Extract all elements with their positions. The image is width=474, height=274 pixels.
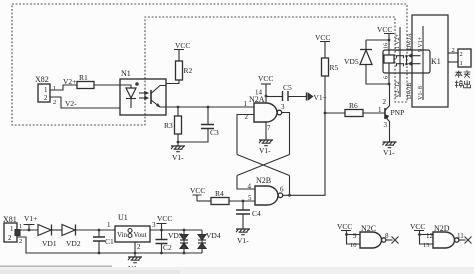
svg-text:C2: C2 xyxy=(163,243,172,252)
svg-text:R5: R5 xyxy=(330,63,339,72)
VCC (at U1 output) xyxy=(157,214,173,230)
svg-text:R6: R6 xyxy=(349,101,358,110)
diode VD5 xyxy=(344,39,390,86)
ground V1- (below R3) xyxy=(171,141,185,162)
svg-text:2: 2 xyxy=(383,98,387,106)
ground V1- (N2A pin7) xyxy=(259,122,273,155)
svg-text:1: 1 xyxy=(107,221,111,229)
svg-text:16: 16 xyxy=(384,43,390,49)
svg-text:1: 1 xyxy=(10,225,14,233)
capacitor C1 xyxy=(93,229,114,255)
svg-text:8: 8 xyxy=(385,232,389,240)
relay outline box xyxy=(412,15,448,107)
svg-text:PNP: PNP xyxy=(391,108,405,117)
power port V1+ (arrow) xyxy=(307,93,327,103)
svg-text:C1: C1 xyxy=(105,237,114,246)
svg-text:1: 1 xyxy=(244,100,248,108)
wire U1 pin2 to ground xyxy=(134,242,137,257)
wire U1 pin3 rail xyxy=(150,229,202,231)
VCC (above relay coil) xyxy=(377,25,394,40)
relay K1 coil xyxy=(384,40,395,84)
svg-text:9 V1+: 9 V1+ xyxy=(418,36,424,52)
svg-text:V1+: V1+ xyxy=(24,214,37,223)
optocoupler N1 xyxy=(120,69,166,115)
regulator U1 xyxy=(107,213,156,251)
svg-text:V2- 12: V2- 12 xyxy=(395,81,401,98)
svg-text:N2B: N2B xyxy=(256,176,271,185)
relay pin 12 net V2- xyxy=(395,81,401,98)
zener pair VD3 xyxy=(168,229,188,255)
svg-text:7: 7 xyxy=(267,124,271,132)
svg-text:VD1: VD1 xyxy=(42,239,57,248)
relay K1 contact box xyxy=(383,50,441,73)
svg-text:VD4: VD4 xyxy=(206,231,221,240)
svg-text:R2: R2 xyxy=(184,66,193,75)
VCC (above R5) xyxy=(315,33,330,58)
resistor R4 xyxy=(197,189,255,205)
svg-text:10: 10 xyxy=(350,242,357,249)
svg-text:1: 1 xyxy=(460,60,463,67)
svg-text:V1-: V1- xyxy=(172,153,184,162)
nand gate N2B xyxy=(248,176,285,205)
svg-text:11 V2+: 11 V2+ xyxy=(395,33,401,52)
svg-text:Vout: Vout xyxy=(134,231,147,239)
svg-text:1: 1 xyxy=(378,106,382,114)
svg-text:V1-: V1- xyxy=(259,146,271,155)
wire N2B output feedback xyxy=(289,176,291,196)
svg-text:12: 12 xyxy=(426,232,434,240)
relay contact a xyxy=(397,54,421,58)
svg-text:1: 1 xyxy=(19,223,22,230)
svg-text:V2-: V2- xyxy=(65,99,77,108)
transistor Q1 PNP xyxy=(378,84,404,142)
wire cross-coupling diagonals xyxy=(237,155,290,176)
relay pin 11 net V2+ xyxy=(395,27,401,97)
svg-text:3: 3 xyxy=(152,221,156,229)
svg-text:VD5: VD5 xyxy=(344,57,359,66)
zener pair VD4 xyxy=(198,230,221,253)
svg-text:VCC: VCC xyxy=(258,74,273,83)
connector X81 xyxy=(3,215,20,242)
svg-text:R3: R3 xyxy=(164,121,173,130)
wire X82 pin1 to R1 (V2+) xyxy=(50,77,77,92)
svg-text:VCC: VCC xyxy=(337,222,352,231)
resistor R1 xyxy=(77,73,94,89)
svg-text:N1: N1 xyxy=(121,69,131,78)
connector X82 xyxy=(35,75,50,102)
svg-text:X82: X82 xyxy=(35,75,49,84)
wire N1 collector to R2 xyxy=(166,80,179,86)
VCC (above N2A) xyxy=(258,74,273,84)
diode VD2 xyxy=(62,225,115,249)
svg-text:U1: U1 xyxy=(118,213,128,222)
svg-text:11: 11 xyxy=(457,232,464,240)
resistor R6 xyxy=(324,101,385,117)
svg-text:1: 1 xyxy=(53,85,56,92)
svg-text:3: 3 xyxy=(384,121,388,129)
svg-text:V2+: V2+ xyxy=(63,77,76,86)
nand gate N2A xyxy=(244,89,286,133)
wire N1 emitter node to N2A pin1 xyxy=(166,106,254,109)
wire N2B pin6 output to R5/R6 rail xyxy=(283,76,325,197)
resistor R5 xyxy=(322,58,339,76)
svg-text:VCC: VCC xyxy=(157,214,172,223)
nand gate N2D xyxy=(418,224,464,249)
svg-text:R1: R1 xyxy=(79,73,88,82)
wire to N2B pin4 xyxy=(237,176,255,190)
svg-text:2: 2 xyxy=(53,99,56,106)
capacitor C3 xyxy=(178,107,219,142)
ground V1- (U1) xyxy=(128,257,142,273)
wire N2A pin3 output xyxy=(282,113,290,155)
svg-text:R4: R4 xyxy=(215,189,224,198)
svg-text:3: 3 xyxy=(281,103,285,111)
svg-text:1: 1 xyxy=(44,86,48,94)
power port V1+ (X81) xyxy=(24,214,38,231)
nand gate N2C xyxy=(345,224,389,249)
svg-text:V1-: V1- xyxy=(383,148,395,157)
page edge shading xyxy=(0,266,112,268)
capacitor C2 xyxy=(156,229,173,255)
svg-text:6: 6 xyxy=(280,186,284,194)
no-connect X (N2D out) xyxy=(459,237,472,244)
svg-text:C3: C3 xyxy=(210,128,219,137)
svg-text:VCC: VCC xyxy=(377,25,392,34)
svg-text:2: 2 xyxy=(44,94,48,102)
connector output (本安输出) xyxy=(448,47,471,88)
svg-text:V1- 8: V1- 8 xyxy=(418,86,424,100)
wire X81 pin1 rail xyxy=(19,223,38,230)
svg-text:VCC: VCC xyxy=(190,186,205,195)
svg-text:13: 13 xyxy=(423,242,430,249)
svg-text:2: 2 xyxy=(452,47,455,54)
VCC (N2D) xyxy=(410,222,425,235)
diode VD1 xyxy=(38,225,62,249)
VCC (above R4) xyxy=(190,186,205,201)
svg-text:Vin: Vin xyxy=(117,231,128,239)
svg-text:2: 2 xyxy=(137,243,141,251)
svg-text:C5: C5 xyxy=(283,83,292,92)
svg-text:2: 2 xyxy=(460,51,463,58)
relay contact b xyxy=(397,56,421,66)
svg-text:VCC: VCC xyxy=(315,33,330,42)
svg-text:14: 14 xyxy=(255,89,263,97)
resistor R3 xyxy=(164,107,182,142)
svg-text:VD2: VD2 xyxy=(66,239,81,248)
no-connect X (N2C out) xyxy=(386,237,399,244)
svg-text:4: 4 xyxy=(248,183,252,191)
VCC (above R2) xyxy=(174,41,190,61)
dashed isolation boundary xyxy=(12,4,407,125)
ground V1- (PNP emitter) xyxy=(383,142,397,157)
svg-text:V1-: V1- xyxy=(237,236,249,245)
wire N2A pin14 to VCC xyxy=(265,84,267,103)
relay pin 8 net V1- xyxy=(418,86,424,100)
svg-text:6: 6 xyxy=(384,76,390,79)
relay pin 9 net V1+ xyxy=(418,26,424,100)
ground V1- (below C4) xyxy=(236,229,250,245)
svg-text:9: 9 xyxy=(353,232,357,240)
wire X81 pin2 to bottom rail xyxy=(17,237,202,253)
wire R1 to N1 xyxy=(94,84,120,86)
svg-text:VCC: VCC xyxy=(175,41,190,50)
resistor R2 xyxy=(176,61,193,80)
svg-text:K1: K1 xyxy=(431,57,441,66)
svg-text:2: 2 xyxy=(8,234,12,242)
wire N2A pin2 xyxy=(237,115,254,155)
svg-text:C4: C4 xyxy=(252,209,261,218)
capacitor C5 xyxy=(266,83,306,101)
VCC (N2C) xyxy=(337,222,352,235)
capacitor C4 xyxy=(236,201,261,229)
svg-text:2: 2 xyxy=(19,238,22,245)
svg-text:VCC: VCC xyxy=(410,222,425,231)
wire X82 pin2 (V2-) to N1 xyxy=(50,97,120,108)
